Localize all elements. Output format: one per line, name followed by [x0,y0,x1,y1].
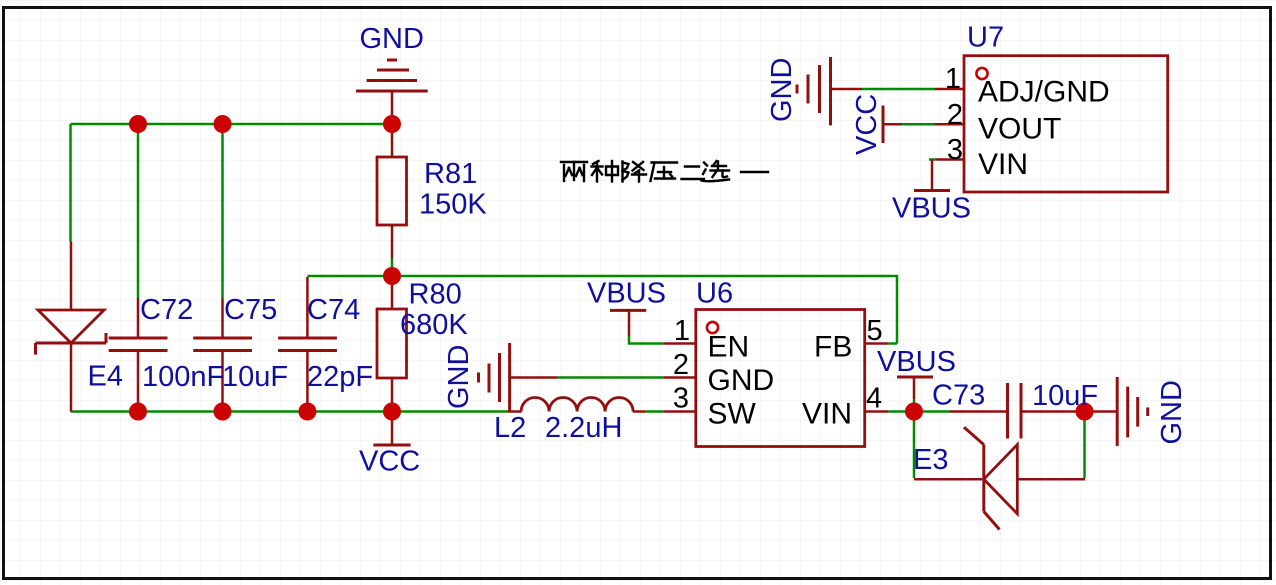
svg-text:VCC: VCC [359,446,420,478]
svg-text:FB: FB [814,331,852,364]
svg-text:5: 5 [867,315,883,347]
svg-text:10uF: 10uF [1032,380,1098,412]
svg-text:GND: GND [443,345,475,409]
svg-text:2: 2 [673,349,689,381]
svg-text:VCC: VCC [851,94,883,155]
svg-text:22pF: 22pF [307,361,373,393]
svg-text:E4: E4 [88,361,123,393]
svg-text:U6: U6 [696,278,733,310]
svg-text:VIN: VIN [802,398,852,431]
svg-text:GND: GND [766,58,798,122]
svg-text:U7: U7 [967,22,1004,54]
svg-text:VOUT: VOUT [978,113,1061,146]
svg-text:3: 3 [947,134,963,166]
svg-text:C72: C72 [140,294,193,326]
svg-text:10uF: 10uF [222,361,288,393]
svg-text:680K: 680K [400,309,468,341]
svg-text:GND: GND [708,364,775,397]
svg-text:100nF: 100nF [142,361,224,393]
svg-text:150K: 150K [419,189,487,221]
svg-text:R80: R80 [409,279,462,311]
svg-text:ADJ/GND: ADJ/GND [978,76,1110,109]
svg-text:1: 1 [674,315,690,347]
svg-text:C75: C75 [224,294,277,326]
svg-text:4: 4 [866,383,882,415]
svg-text:VIN: VIN [978,148,1028,181]
svg-text:C74: C74 [307,294,360,326]
svg-text:VBUS: VBUS [587,278,666,310]
svg-text:E3: E3 [913,444,948,476]
svg-text:C73: C73 [932,380,985,412]
svg-text:EN: EN [708,331,750,364]
svg-text:L2: L2 [494,412,526,444]
svg-text:1: 1 [945,63,961,95]
svg-text:VBUS: VBUS [877,346,956,378]
svg-text:GND: GND [360,23,424,55]
svg-text:GND: GND [1156,380,1188,444]
svg-text:3: 3 [673,383,689,415]
svg-text:VBUS: VBUS [892,193,971,225]
svg-text:2: 2 [947,99,963,131]
svg-text:SW: SW [708,398,757,431]
svg-text:2.2uH: 2.2uH [545,412,622,444]
svg-text:R81: R81 [424,158,477,190]
